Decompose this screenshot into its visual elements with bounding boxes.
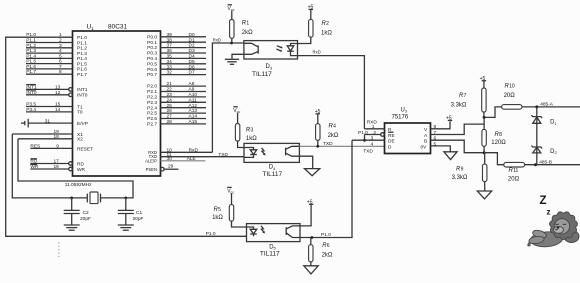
U3 pin8 V wire to +5 — [431, 121, 451, 129]
zener diode D1 — [533, 117, 541, 123]
svg-text:D7: D7 — [189, 70, 195, 76]
D4 phototransistor (right) — [286, 146, 300, 149]
D3 light arrows — [277, 46, 282, 48]
svg-text:12: 12 — [55, 90, 61, 96]
svg-text:2: 2 — [59, 38, 62, 44]
svg-text:20pF: 20pF — [133, 216, 144, 222]
svg-text:15: 15 — [55, 102, 61, 108]
svg-text:485-B: 485-B — [539, 159, 552, 165]
wire P1.0 rail from pin 1 down left side to bottom bus — [6, 37, 247, 236]
junction on RxD wire — [230, 42, 233, 45]
pin TXD (pin 11) wire — [161, 156, 245, 158]
svg-text:A9: A9 — [189, 87, 195, 93]
pin P2.7 (pin 28) wire to A15 — [161, 123, 207, 125]
svg-text:1: 1 — [59, 32, 62, 38]
pin P2.2 (pin 23) wire to A10 — [161, 96, 207, 98]
svg-text:5: 5 — [218, 207, 221, 213]
svg-text:P2.6: P2.6 — [147, 116, 157, 122]
svg-text:11: 11 — [513, 168, 518, 174]
svg-text:P1.2: P1.2 — [77, 46, 87, 52]
svg-text:TXD: TXD — [363, 148, 373, 154]
svg-text:1kΩ: 1kΩ — [212, 215, 223, 221]
D4 LED (left) — [244, 148, 254, 150]
svg-text:P0.4: P0.4 — [147, 56, 157, 62]
svg-text:3: 3 — [251, 128, 254, 134]
svg-text:P1.7: P1.7 — [26, 69, 36, 75]
svg-text:RxD: RxD — [189, 147, 199, 153]
svg-text:P1.0: P1.0 — [26, 32, 36, 38]
svg-text:X2: X2 — [77, 137, 83, 143]
resistor R2 1k — [309, 19, 313, 37]
svg-text:A10: A10 — [189, 92, 198, 98]
ground under C1 — [118, 224, 134, 226]
svg-text:P1.7: P1.7 — [77, 72, 87, 78]
pin P0.2 (pin 37) wire to D2 — [161, 47, 207, 49]
svg-text:P1.3: P1.3 — [77, 51, 87, 57]
D4 light bolt arrow — [262, 148, 265, 155]
svg-text:P2.3: P2.3 — [147, 100, 157, 106]
D5 phototransistor (right) — [286, 226, 300, 229]
svg-text:18: 18 — [54, 134, 60, 140]
pin P3.4/T0 (pin 14) wire — [26, 111, 73, 113]
svg-text:2kΩ: 2kΩ — [328, 133, 339, 139]
crystal Y1 11.0592MHz — [86, 194, 88, 203]
pin RD (pin 17) wire with bubble — [30, 163, 68, 165]
wire RXD riser from chip pin10 up to opto D3 — [212, 43, 244, 152]
svg-text:TXD: TXD — [218, 152, 228, 158]
svg-text:Vcc: Vcc — [233, 108, 240, 114]
svg-text:120Ω: 120Ω — [491, 140, 506, 146]
svg-text:0V: 0V — [421, 144, 428, 150]
svg-text:80C31: 80C31 — [108, 24, 128, 31]
ground triangle under R9 — [477, 191, 491, 199]
svg-text:P2.1: P2.1 — [147, 89, 157, 95]
dotted mark below grounds — [58, 242, 60, 257]
pin EA/VP (pin 31) wire — [28, 122, 72, 124]
svg-text:16: 16 — [54, 164, 60, 170]
capacitor C2 20pF — [70, 197, 73, 200]
svg-text:A13: A13 — [189, 108, 198, 114]
optocoupler D3 TIL117 box — [244, 41, 298, 59]
svg-text:24: 24 — [167, 97, 173, 103]
pin P0.1 (pin 38) wire to D1 — [161, 41, 207, 43]
svg-text:P0.2: P0.2 — [147, 45, 157, 51]
svg-text:P3.5: P3.5 — [26, 102, 36, 108]
D3 LED (right) — [291, 44, 298, 46]
svg-text:75176: 75176 — [392, 114, 409, 120]
node A junction — [483, 116, 486, 119]
svg-text:3: 3 — [371, 136, 374, 142]
svg-text:TXD: TXD — [323, 141, 333, 147]
wire node B to R11 — [484, 153, 504, 165]
svg-text:Vcc: Vcc — [228, 6, 235, 12]
svg-text:D2: D2 — [189, 43, 195, 49]
ground (earth) at D3 emitter — [232, 54, 244, 59]
svg-text:2: 2 — [373, 130, 376, 136]
svg-text:A8: A8 — [189, 81, 195, 87]
pin P0.0 (pin 39) wire to D0 — [161, 36, 207, 38]
resistor R11 20ohm — [504, 162, 525, 167]
svg-text:20Ω: 20Ω — [504, 93, 516, 99]
wire 485-B line to edge — [525, 164, 580, 166]
svg-text:30: 30 — [167, 156, 173, 162]
pin P0.7 (pin 32) wire to D7 — [161, 74, 207, 76]
svg-text:Z: Z — [540, 195, 547, 207]
Vcc symbol above R1 — [228, 4, 232, 6]
resistor R5 1k — [229, 205, 233, 222]
svg-text:8: 8 — [499, 132, 502, 138]
svg-text:29: 29 — [168, 164, 174, 170]
svg-text:P2.5: P2.5 — [147, 111, 157, 117]
svg-text:4: 4 — [59, 48, 62, 54]
svg-text:D4: D4 — [189, 54, 195, 60]
wire X1 to crystal left — [12, 134, 87, 198]
pin P2.4 (pin 25) wire to A12 — [161, 107, 207, 109]
svg-text:P2.0: P2.0 — [147, 84, 157, 90]
svg-text:RE: RE — [388, 133, 395, 139]
svg-text:RxD: RxD — [313, 50, 321, 55]
U3 pin5 0V wire to ground — [431, 146, 451, 152]
svg-text:TIL117: TIL117 — [260, 250, 280, 257]
svg-text:1: 1 — [246, 21, 249, 27]
svg-text:P1.0: P1.0 — [77, 35, 87, 41]
svg-text:TIL117: TIL117 — [252, 71, 272, 78]
pin P2.5 (pin 26) wire to A13 — [161, 112, 207, 114]
svg-text:36: 36 — [167, 48, 173, 54]
resistor R8 120ohm between A and B — [483, 117, 485, 129]
svg-text:D3: D3 — [266, 64, 273, 70]
svg-text:11.0592MHz: 11.0592MHz — [65, 182, 92, 188]
wire TXD from D4 to U3 pin4 — [299, 145, 384, 147]
svg-text:20Ω: 20Ω — [508, 176, 520, 182]
svg-text:A11: A11 — [189, 97, 198, 103]
svg-text:14: 14 — [55, 107, 61, 113]
optocoupler D4 TIL117 box — [244, 143, 299, 162]
svg-text:P0.3: P0.3 — [147, 51, 157, 57]
pin X2 (pin 18) wire — [18, 138, 73, 140]
svg-text:U1: U1 — [87, 24, 95, 32]
svg-text:C1: C1 — [136, 210, 142, 216]
svg-text:P1.1: P1.1 — [26, 38, 36, 44]
svg-text:D1: D1 — [550, 120, 557, 126]
wire X2 loop to crystal right — [18, 139, 133, 198]
D3 phototransistor (left) — [244, 43, 258, 47]
svg-text:z: z — [547, 208, 551, 217]
svg-text:23: 23 — [167, 92, 173, 98]
svg-text:RD: RD — [77, 161, 84, 167]
svg-text:38: 38 — [167, 37, 173, 43]
svg-text:2kΩ: 2kΩ — [242, 30, 253, 36]
resistor R4 2k — [316, 124, 320, 141]
svg-text:V: V — [424, 127, 428, 133]
resistor R9 3.3k pulldown — [484, 153, 486, 164]
svg-text:P1.0: P1.0 — [206, 231, 216, 237]
svg-text:22: 22 — [167, 87, 173, 93]
svg-text:1kΩ: 1kΩ — [246, 136, 257, 142]
svg-text:1kΩ: 1kΩ — [321, 30, 332, 36]
svg-text:5: 5 — [434, 141, 437, 147]
pin PSEN (pin 29) wire with bubble — [161, 167, 165, 171]
U3 pin2 RE wire with bubble — [365, 134, 381, 136]
svg-text:4: 4 — [371, 141, 374, 147]
Vcc symbol above R3 — [233, 106, 237, 108]
svg-text:P2.2: P2.2 — [147, 95, 157, 101]
pin P1.0 (pin 1) wire — [26, 36, 73, 38]
svg-text:P0.0: P0.0 — [147, 34, 157, 40]
svg-text:3.3kΩ: 3.3kΩ — [451, 102, 467, 108]
svg-text:P0.6: P0.6 — [147, 67, 157, 73]
svg-text:6: 6 — [59, 59, 62, 65]
D5 LED (left) — [247, 227, 254, 229]
svg-text:P1.5: P1.5 — [77, 61, 87, 67]
svg-text:34: 34 — [167, 59, 173, 65]
svg-text:TIL117: TIL117 — [262, 171, 282, 178]
svg-text:A14: A14 — [189, 114, 198, 120]
svg-text:P1.6: P1.6 — [77, 67, 87, 73]
svg-text:RxD: RxD — [213, 38, 221, 43]
svg-text:31: 31 — [45, 118, 51, 124]
svg-text:5: 5 — [59, 53, 62, 59]
U3 pin3 DE wire — [352, 139, 385, 141]
svg-text:WR: WR — [77, 167, 86, 173]
svg-text:P0.7: P0.7 — [147, 72, 157, 78]
wire between protection diodes — [536, 107, 538, 165]
IC U1 80C31 microcontroller body — [73, 31, 161, 176]
svg-text:9: 9 — [56, 144, 59, 150]
pin INT1 (pin 13) wire with bubble — [26, 88, 69, 90]
svg-text:RD: RD — [30, 159, 37, 165]
wire P1.0 output from D5 to U3 RE/DE — [300, 140, 352, 237]
svg-text:T0: T0 — [77, 110, 83, 116]
pin P2.1 (pin 22) wire to A9 — [161, 91, 207, 93]
pin P0.3 (pin 36) wire to D3 — [161, 52, 207, 54]
wire node A to R10 — [484, 107, 502, 118]
pin P0.5 (pin 34) wire to D5 — [161, 63, 207, 65]
pin X1 (pin 19) wire — [12, 133, 72, 135]
decorative sleeping lion clipart — [528, 212, 579, 248]
svg-text:P1.3: P1.3 — [26, 48, 36, 54]
svg-text:17: 17 — [54, 159, 60, 165]
svg-text:7: 7 — [464, 93, 467, 99]
svg-text:D3: D3 — [189, 48, 195, 54]
pin P0.6 (pin 33) wire to D6 — [161, 68, 207, 70]
svg-text:INT1: INT1 — [77, 87, 88, 93]
svg-text:P1.0: P1.0 — [358, 130, 368, 136]
svg-text:1: 1 — [372, 124, 375, 130]
svg-text:DE: DE — [388, 138, 395, 144]
svg-text:21: 21 — [167, 81, 173, 87]
svg-text:37: 37 — [167, 43, 173, 49]
svg-text:P3.4: P3.4 — [26, 107, 36, 113]
capacitor C1 20pF — [124, 197, 127, 200]
U3 pin2/pin3 tie jog — [364, 135, 366, 141]
ground triangle at U3 pin5 — [444, 152, 457, 160]
svg-text:D2: D2 — [550, 149, 557, 155]
svg-text:35: 35 — [167, 54, 173, 60]
svg-text:B: B — [424, 138, 427, 144]
Vcc symbol above R5 — [227, 186, 231, 188]
pin RXD (pin 10) wire — [161, 151, 213, 153]
IC U3 75176 body — [385, 123, 431, 154]
svg-text:Vcc: Vcc — [227, 188, 234, 194]
svg-text:ALE: ALE — [187, 156, 196, 162]
node B junction — [483, 151, 486, 154]
svg-text:D: D — [388, 144, 392, 150]
resistor R6 2k pulldown — [310, 238, 312, 245]
U3 pin6 B wire to node B — [431, 140, 485, 153]
svg-text:P0.5: P0.5 — [147, 61, 157, 67]
svg-text:13: 13 — [55, 84, 61, 90]
resistor R1 2k — [230, 20, 234, 39]
svg-text:E/VP: E/VP — [77, 121, 88, 127]
D5 light bolt arrow — [261, 226, 264, 233]
svg-text:26: 26 — [167, 108, 173, 114]
wire 485-A line to edge — [522, 106, 580, 108]
U3 pin1 R wire from RxD — [364, 128, 384, 130]
pin P3.5/T1 (pin 15) wire — [26, 106, 73, 108]
pin P0.4 (pin 35) wire to D4 — [161, 57, 207, 59]
svg-text:INT0: INT0 — [26, 90, 37, 96]
svg-text:27: 27 — [167, 114, 173, 120]
svg-text:2: 2 — [326, 21, 329, 27]
pin P2.0 (pin 21) wire to A8 — [161, 85, 207, 87]
svg-text:INT0: INT0 — [77, 93, 88, 99]
svg-text:32: 32 — [167, 70, 173, 76]
svg-text:6: 6 — [434, 136, 437, 142]
pin P1.1 (pin 2) wire — [26, 42, 73, 44]
svg-text:P1.1: P1.1 — [77, 40, 87, 46]
svg-text:A12: A12 — [189, 103, 198, 109]
svg-text:39: 39 — [167, 32, 173, 38]
pin P1.4 (pin 5) wire — [26, 57, 73, 59]
svg-text:D6: D6 — [189, 64, 195, 70]
resistor R3 1k — [235, 124, 239, 142]
svg-text:A: A — [424, 133, 428, 139]
pin P1.6 (pin 7) wire — [26, 68, 73, 70]
svg-text:P1.2: P1.2 — [26, 43, 36, 49]
svg-text:9: 9 — [461, 166, 464, 172]
svg-text:8: 8 — [59, 69, 62, 75]
svg-text:3.3kΩ: 3.3kΩ — [452, 175, 468, 181]
ground triangle at D4 emitter — [299, 156, 312, 168]
svg-text:P1.4: P1.4 — [26, 53, 36, 59]
svg-text:D1: D1 — [189, 37, 195, 43]
resistor R10 20ohm — [502, 105, 522, 110]
svg-text:8: 8 — [434, 124, 437, 130]
pin P1.5 (pin 6) wire — [26, 63, 73, 65]
zener diode D2 — [533, 147, 541, 153]
svg-text:P1.4: P1.4 — [77, 56, 87, 62]
svg-text:A15: A15 — [189, 119, 198, 125]
svg-text:P0.1: P0.1 — [147, 40, 157, 46]
svg-text:D0: D0 — [189, 32, 195, 38]
U3 pin7 A wire to node A — [431, 124, 485, 134]
pin P2.3 (pin 24) wire to A11 — [161, 101, 207, 103]
svg-text:20pF: 20pF — [80, 216, 91, 222]
wire RxD from D3 to U3 pin1 — [298, 56, 365, 129]
svg-text:T1: T1 — [77, 104, 83, 110]
svg-text:10: 10 — [509, 84, 515, 90]
svg-text:P2.7: P2.7 — [147, 122, 157, 128]
svg-text:U3: U3 — [401, 107, 408, 113]
optocoupler D5 TIL117 box — [247, 224, 301, 242]
pin P1.2 (pin 3) wire — [26, 47, 73, 49]
pin ALE/P (pin 30) wire — [161, 160, 206, 162]
ground triangle under R6 — [304, 266, 318, 274]
svg-text:3: 3 — [59, 43, 62, 49]
pin P1.7 (pin 8) wire — [26, 73, 73, 75]
svg-text:6: 6 — [327, 243, 330, 249]
svg-text:P1.0: P1.0 — [321, 232, 331, 238]
svg-text:P2.4: P2.4 — [147, 105, 157, 111]
svg-text:ALE/P: ALE/P — [145, 159, 157, 164]
svg-text:C2: C2 — [83, 210, 89, 216]
svg-text:25: 25 — [167, 103, 173, 109]
svg-text:P1.6: P1.6 — [26, 64, 36, 70]
pin P2.6 (pin 27) wire to A14 — [161, 118, 207, 120]
resistor R7 3.3k — [482, 88, 486, 112]
svg-text:PSEN: PSEN — [146, 167, 157, 172]
svg-text:P1.5: P1.5 — [26, 59, 36, 65]
pin P1.3 (pin 4) wire — [26, 52, 73, 54]
svg-text:2kΩ: 2kΩ — [322, 253, 333, 259]
pin WR (pin 16) wire with bubble — [30, 168, 68, 170]
svg-text:33: 33 — [167, 64, 173, 70]
svg-text:28: 28 — [167, 119, 173, 125]
pin RESET (pin 9) wire — [30, 147, 72, 149]
pin INT0 (pin 12) wire with bubble — [26, 94, 69, 96]
EA tie-high cell symbol — [27, 119, 29, 128]
ground under C2 — [64, 224, 80, 226]
svg-text:485-A: 485-A — [540, 101, 554, 107]
svg-text:7: 7 — [59, 64, 62, 70]
svg-text:RES: RES — [30, 144, 40, 150]
svg-text:7: 7 — [434, 130, 437, 136]
svg-text:D5: D5 — [189, 59, 195, 65]
svg-text:RESET: RESET — [77, 146, 93, 152]
svg-text:4: 4 — [333, 123, 336, 129]
